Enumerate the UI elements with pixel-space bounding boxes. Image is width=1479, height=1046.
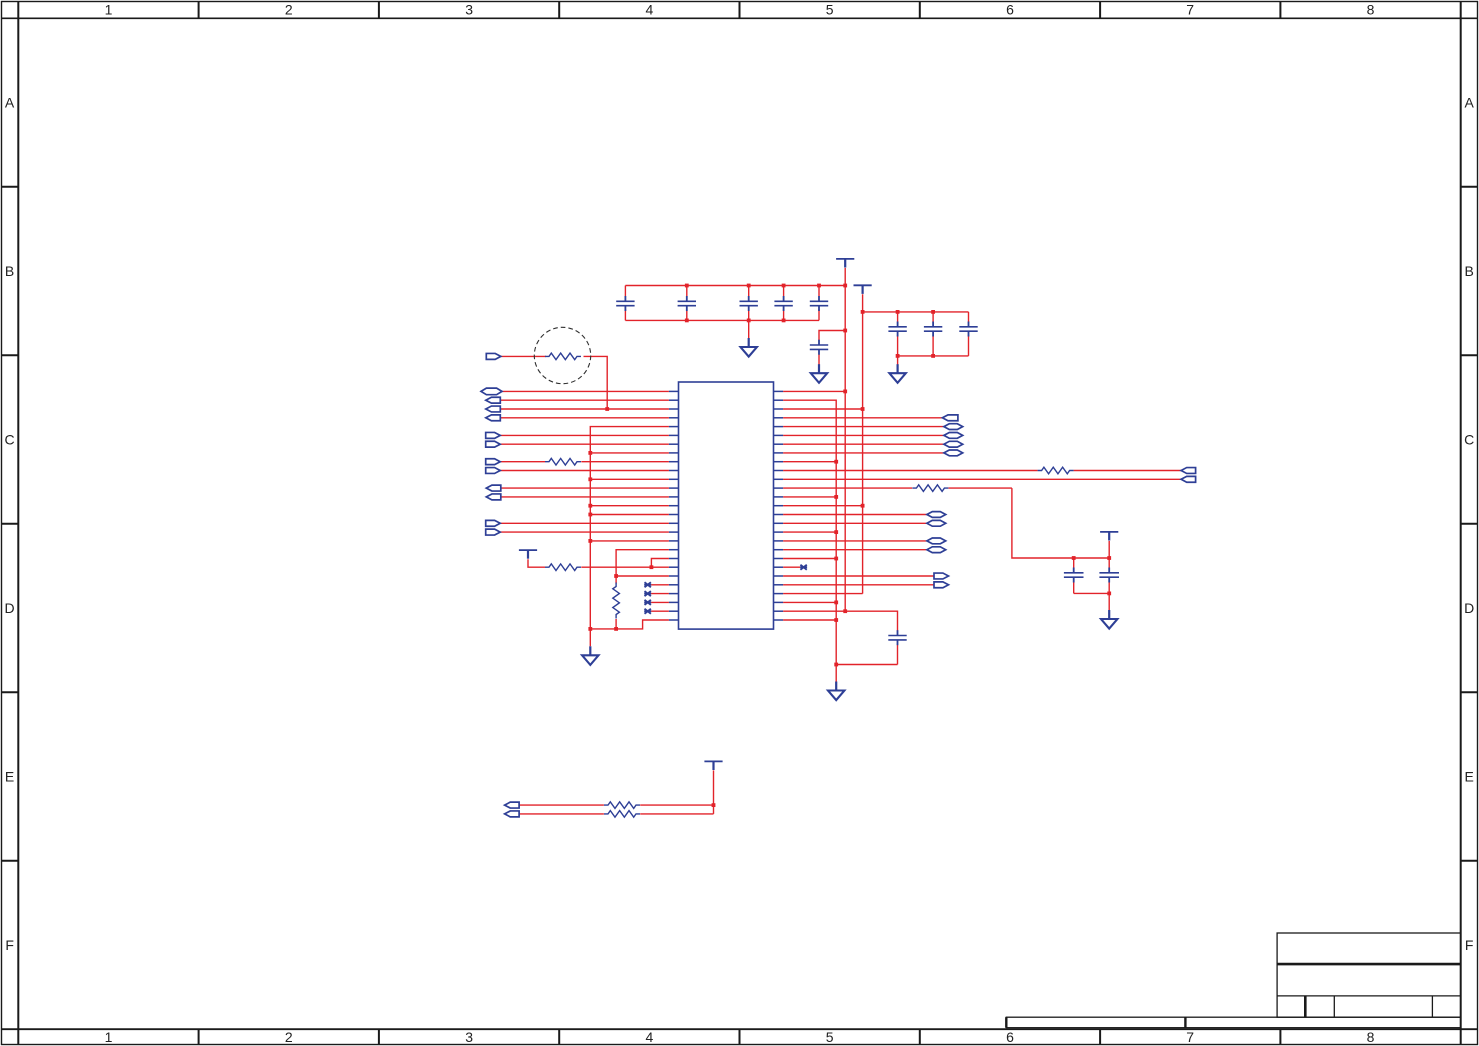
wire: GND bus vertical from pin R2 <box>783 400 836 664</box>
wire: AVDD cap rail bottom <box>898 355 969 357</box>
port PB1 bidirectional <box>944 424 963 430</box>
port PA2 input <box>505 811 519 817</box>
port PO4 output <box>934 573 949 579</box>
svg-text:1: 1 <box>105 1029 113 1045</box>
wire: AVDD vertical from PWR2 <box>862 294 864 593</box>
port PB8 bidirectional <box>927 547 946 553</box>
wire: ground stub G2 <box>748 320 750 338</box>
wire: VDD vertical from PWR1 <box>844 268 846 611</box>
svg-text:E: E <box>5 769 14 785</box>
wire: leads capacitor C3 <box>748 286 750 321</box>
wire: bus stub pin L14 <box>590 505 669 507</box>
resistor R5 <box>613 583 620 619</box>
svg-text:F: F <box>5 937 14 953</box>
wire: pin R14 to AVDD <box>783 505 863 507</box>
wire: pin R20 to GND bus <box>783 558 836 560</box>
wire: pin R12 through R7 to PLL filter <box>783 488 1109 558</box>
wire: pin R10 through R6 to port PO2 <box>783 470 1181 472</box>
wire: pin R17 to GND bus <box>783 531 836 533</box>
wire: pin R23 to port PO5 <box>783 584 934 586</box>
resistor R6 <box>1038 467 1074 474</box>
svg-text:3: 3 <box>465 1029 473 1045</box>
wire: pin R1 to VDD <box>783 390 845 392</box>
wire: leads capacitor C8 <box>932 312 934 356</box>
no-connect X left pin L24 <box>644 591 651 596</box>
svg-text:C: C <box>1464 432 1474 448</box>
svg-text:4: 4 <box>646 1029 654 1045</box>
wire: GND bus to ground G6 <box>835 665 837 682</box>
svg-text:5: 5 <box>826 2 834 18</box>
wire: pin R5 to port PB1 <box>783 426 944 428</box>
wire: pin R18 to port PB7 <box>783 540 927 542</box>
wire: net IN3 pin L3 (with tee from R1) <box>501 408 669 410</box>
svg-text:D: D <box>1464 600 1474 616</box>
svg-text:E: E <box>1465 769 1474 785</box>
port P2 input <box>486 397 501 403</box>
wire: net OUT1 pin L12 <box>501 487 669 489</box>
wire: bus stub pin L11 <box>590 478 669 480</box>
wire: nc stub pin L25 <box>651 601 669 603</box>
resistor R9 <box>604 811 640 818</box>
wire: C12 bottom rail to GND bus <box>836 645 897 665</box>
port P10 input <box>486 494 501 500</box>
wire: nc stub pin L23 <box>651 584 669 586</box>
capacitor C11 <box>1099 568 1119 583</box>
wire: net IN2 pin L2 <box>501 399 669 401</box>
power symbol PWR2 AVDD <box>854 285 872 294</box>
svg-text:B: B <box>1465 263 1474 279</box>
wire: net IN10 pin L17 <box>500 531 669 533</box>
wire: R5 bottom to ground rail <box>615 619 617 629</box>
ground G6 <box>828 682 844 701</box>
port P9 input <box>486 485 501 491</box>
port PR1 output <box>486 353 501 359</box>
resistor R2 <box>545 458 581 465</box>
wire: pin L20 jog to VREF row <box>651 559 669 568</box>
wire: pin R25 to GND bus <box>783 601 836 603</box>
resistor R7 <box>912 485 948 492</box>
power symbol PWR3 VREF <box>519 550 537 559</box>
svg-text:3: 3 <box>465 2 473 18</box>
capacitor C2 <box>678 296 696 311</box>
port P4 input <box>486 415 501 421</box>
wire: ground stub G4 <box>897 356 899 365</box>
wire: bus stub pin L18 <box>590 540 669 542</box>
power symbol PWR5 aux <box>704 761 722 770</box>
wire: leads capacitor C10 <box>1073 558 1075 593</box>
svg-text:7: 7 <box>1186 2 1194 18</box>
dashed highlight circle around R1 <box>534 327 590 383</box>
svg-text:D: D <box>5 600 15 616</box>
svg-text:8: 8 <box>1367 1029 1375 1045</box>
wire: pin R19 to port PB8 <box>783 549 927 551</box>
resistor R8 <box>604 802 640 809</box>
capacitor C1 <box>616 296 634 311</box>
svg-text:8: 8 <box>1367 2 1375 18</box>
wire: net VREF from PWR3 through R4 to pin L21 <box>528 559 669 567</box>
resistor R4 <box>545 564 581 571</box>
wire: aux net A through R8 <box>518 804 714 806</box>
port PO5 output <box>934 582 949 588</box>
wire: net IN6 pin L7 <box>500 443 669 445</box>
no-connect X left pin L23 <box>644 582 651 587</box>
wire: net IN1 pin L1 <box>502 390 669 392</box>
wire: aux net B through R9 <box>518 805 714 814</box>
op-amp U1 <box>669 382 783 629</box>
wire: PWR5 stub to aux junction <box>713 770 715 805</box>
wire: net IN9 pin L16 <box>500 522 669 524</box>
wire: net IN8 pin L10 <box>500 470 669 472</box>
wire: pin L27 to ground rail <box>590 620 669 629</box>
wire: AVDD cap rail top <box>863 311 969 313</box>
port PA1 input <box>505 802 519 808</box>
wire: pin R6 to port PB2 <box>783 434 944 436</box>
wire: net IN5 pin L6 <box>500 434 669 436</box>
wire: filter rail bottom to ground G5 <box>1074 593 1110 610</box>
svg-text:5: 5 <box>826 1029 834 1045</box>
port PO3 input <box>1181 476 1196 482</box>
port P6 output <box>486 441 501 447</box>
wire: pin R3 to AVDD <box>783 408 863 410</box>
port P8 output <box>486 468 501 474</box>
wire: pin R27 to GND bus <box>783 619 836 621</box>
wire: port PR1 to R1 <box>500 355 546 357</box>
wire: nc stub pin L24 <box>651 593 669 595</box>
svg-text:A: A <box>5 95 15 111</box>
wire: top decoupling rail <box>625 285 845 287</box>
wire: pin R24 to AVDD bottom <box>783 593 863 595</box>
port PO1 input <box>942 415 958 421</box>
port P1 bidirectional <box>481 388 502 395</box>
wire: R5 junction row pin L22 <box>616 575 669 577</box>
no-connect X left pin L26 <box>644 609 651 614</box>
wire: leads capacitor C1 <box>624 286 626 321</box>
capacitor C6 <box>810 340 828 355</box>
port P5 output <box>486 432 501 438</box>
wire: pin R11 to port PO3 <box>783 478 1181 480</box>
wire: leads capacitor C9 <box>968 312 970 356</box>
ground G1 <box>582 629 598 665</box>
junction dots <box>588 284 1111 807</box>
port PB7 bidirectional <box>927 538 946 544</box>
capacitor C8 <box>924 322 942 337</box>
port PB4 bidirectional <box>944 450 963 456</box>
wire: net IN7 pin L9 through R2 <box>500 461 669 463</box>
svg-text:2: 2 <box>285 1029 293 1045</box>
capacitor C10 <box>1064 568 1084 583</box>
port PB6 bidirectional <box>927 520 946 526</box>
port PB3 bidirectional <box>944 441 963 447</box>
wire: C6 branch from VDD <box>819 331 845 341</box>
power symbol PWR1 VDD <box>836 259 854 268</box>
svg-text:4: 4 <box>646 2 654 18</box>
wire: pin R13 to GND bus <box>783 496 836 498</box>
wire: net OUT2 pin L13 <box>501 496 669 498</box>
wire: pin L19 down to R5 top <box>616 550 669 584</box>
wire: pin R22 to port PO4 <box>783 575 934 577</box>
ground G3 <box>811 364 827 383</box>
wire: leads capacitor C5 <box>818 286 820 321</box>
resistor R1 <box>545 353 581 360</box>
svg-text:A: A <box>1465 95 1475 111</box>
wire: leads capacitor C11 <box>1108 558 1110 593</box>
wire: pin R8 to port PB4 <box>783 452 944 454</box>
capacitor C5 <box>810 296 828 311</box>
ground G5 <box>1101 610 1117 629</box>
wire: C6 to ground G3 <box>818 355 820 366</box>
capacitor C9 <box>959 322 977 337</box>
svg-text:6: 6 <box>1006 2 1014 18</box>
wire: nc stub pin R21 <box>783 566 800 568</box>
wire: pin R15 to port PB5 <box>783 514 927 516</box>
wire: pin R4 to port PO1 <box>783 417 942 419</box>
capacitor C7 <box>888 322 906 337</box>
capacitor C4 <box>774 296 792 311</box>
no-connect X right pin R21 <box>800 565 807 570</box>
port P7 output <box>486 459 501 465</box>
ground G4 <box>889 364 905 383</box>
port PB2 bidirectional <box>944 433 963 439</box>
wire: bus stub pin L8 <box>590 452 669 454</box>
wire: PWR4 to filter rail <box>1108 541 1110 558</box>
wire: leads capacitor C2 <box>686 286 688 321</box>
port P11 output <box>486 520 501 526</box>
svg-text:1: 1 <box>105 2 113 18</box>
capacitor C12 <box>888 630 906 645</box>
wire: pin R7 to port PB3 <box>783 443 944 445</box>
wire: bus net VSS left vertical <box>590 427 669 629</box>
wire: pin R9 to GND bus <box>783 461 836 463</box>
wire: bottom decoupling rail <box>625 319 819 321</box>
svg-text:2: 2 <box>285 2 293 18</box>
svg-text:7: 7 <box>1186 1029 1194 1045</box>
svg-text:C: C <box>5 432 15 448</box>
wire: pin R16 to port PB6 <box>783 522 927 524</box>
no-connect X left pin L25 <box>644 600 651 605</box>
svg-text:F: F <box>1465 937 1474 953</box>
wire: leads capacitor C7 <box>897 312 899 356</box>
wire: net IN4 pin L4 <box>501 417 669 419</box>
port PO2 input <box>1181 468 1196 474</box>
wire: pin R26 to VDD end and C12 <box>783 611 897 630</box>
svg-text:6: 6 <box>1006 1029 1014 1045</box>
power symbol PWR4 PLLVDD <box>1100 532 1118 541</box>
capacitor C3 <box>740 296 758 311</box>
port PB5 bidirectional <box>927 512 946 518</box>
port P3 input <box>486 406 501 412</box>
svg-text:B: B <box>5 263 14 279</box>
ground G2 <box>741 338 757 357</box>
wire: bus stub pin L15 <box>590 514 669 516</box>
port P12 output <box>486 529 501 535</box>
wire: nc stub pin L26 <box>651 610 669 612</box>
wire: R1 output to pin L3 tee <box>584 356 608 409</box>
wire: leads capacitor C4 <box>783 286 785 321</box>
